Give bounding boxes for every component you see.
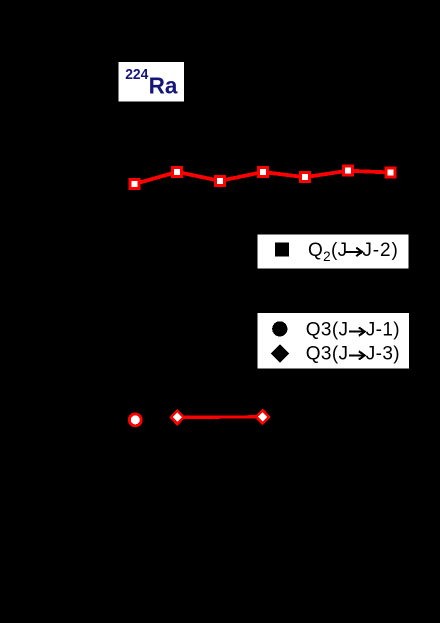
svg-text:J-3): J-3) <box>366 343 400 364</box>
svg-text:224: 224 <box>125 67 149 83</box>
svg-text:Q3(J: Q3(J <box>306 320 349 341</box>
Q2 series line <box>135 171 391 184</box>
Q3 diamond series line <box>177 415 262 419</box>
legend 2 box <box>258 313 409 369</box>
svg-text:J-2): J-2) <box>362 240 398 261</box>
svg-text:Q3(J: Q3(J <box>306 343 349 364</box>
svg-text:J-1): J-1) <box>366 320 400 341</box>
svg-text:Ra: Ra <box>149 73 179 99</box>
Q3 circle marker <box>128 413 143 428</box>
Q2 series square markers <box>129 165 397 190</box>
isotope label box 224Ra <box>119 62 184 102</box>
Q3 diamond markers <box>169 408 271 426</box>
legend 1 box <box>258 234 409 268</box>
